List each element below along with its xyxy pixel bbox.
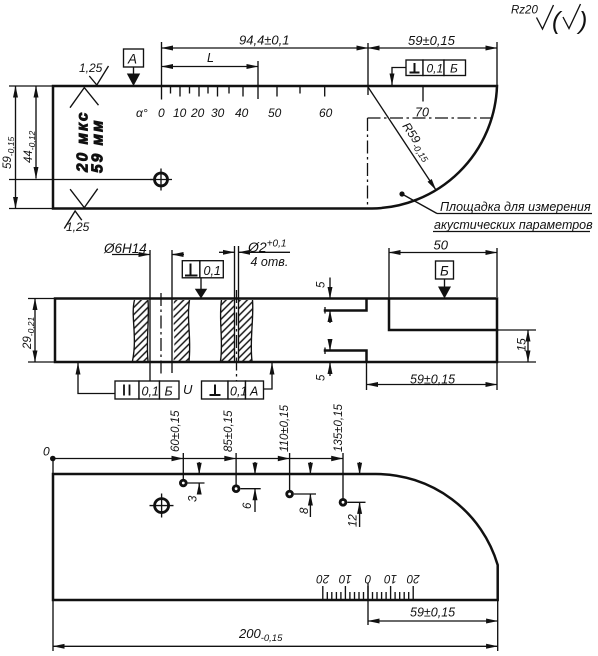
- svg-text:85±0,15: 85±0,15: [223, 410, 235, 452]
- svg-text:15: 15: [515, 338, 529, 352]
- svg-text:59±0,15: 59±0,15: [408, 33, 456, 48]
- svg-text:L: L: [207, 51, 214, 65]
- ruler scale (mirrored): [323, 586, 413, 600]
- svg-text:1,25: 1,25: [66, 220, 90, 234]
- svg-text:6: 6: [242, 502, 254, 509]
- hole axis line: [9, 179, 153, 181]
- svg-text:Б: Б: [165, 385, 173, 399]
- svg-text:10: 10: [338, 572, 351, 584]
- hole Ø6 view1 crosshair: [155, 173, 168, 186]
- svg-text:59±0,15: 59±0,15: [410, 373, 455, 387]
- dimension 15: [497, 329, 536, 331]
- notch bottom 5: [324, 348, 326, 355]
- arrowheads on reference line: [172, 456, 184, 462]
- dimension 59±0,15 (bottom): [367, 583, 369, 625]
- local section hatching around Ø6 hole: [133, 300, 149, 361]
- svg-text:0: 0: [364, 572, 371, 584]
- center lines view1: [368, 117, 492, 119]
- svg-text:0,1: 0,1: [204, 264, 221, 278]
- dimension 29-0,21: [28, 298, 55, 300]
- svg-text:0: 0: [158, 106, 165, 120]
- dimension L: [257, 61, 259, 99]
- svg-text:α°: α°: [136, 106, 148, 120]
- hole Ø6 walls: [149, 250, 151, 381]
- svg-text:0,1: 0,1: [142, 385, 159, 399]
- tolerance frame perpendicular 0,1 A (bottom): [202, 381, 264, 399]
- svg-text:U: U: [183, 382, 193, 397]
- svg-text:30: 30: [211, 106, 225, 120]
- svg-text:8: 8: [299, 507, 311, 514]
- ruler labels (upside down): [316, 572, 421, 584]
- note Площадка для измерения акустических параметров: [399, 191, 404, 196]
- svg-text:12: 12: [348, 514, 360, 527]
- local section hatching around Ø2 hole: [221, 300, 235, 361]
- svg-text:Б: Б: [450, 62, 458, 76]
- svg-text:20: 20: [190, 106, 205, 120]
- dimension 59±0,15 top right: [496, 42, 498, 85]
- dimension 94,4±0,1: [161, 42, 163, 100]
- svg-text:(: (: [552, 7, 563, 35]
- depth dim 3: [198, 462, 200, 474]
- svg-text:50: 50: [268, 106, 282, 120]
- recess 50x15: [389, 300, 497, 331]
- svg-text:60±0,15: 60±0,15: [170, 410, 182, 452]
- block outline view2: [55, 299, 497, 363]
- hole Ø2 walls: [234, 246, 236, 362]
- hole position labels: [170, 410, 182, 452]
- tolerance frame perpendicular 0,1 Б: [406, 60, 466, 76]
- svg-text:5: 5: [316, 281, 328, 288]
- svg-text:29-0,21: 29-0,21: [22, 317, 36, 350]
- block outline view3: [53, 474, 498, 600]
- leader left of frame: [78, 363, 115, 394]
- svg-text:200-0,15: 200-0,15: [238, 626, 283, 644]
- svg-text:Rz20: Rz20: [511, 5, 538, 17]
- roughness mark 1,25 bottom surface: [64, 189, 97, 229]
- svg-text:10: 10: [384, 572, 397, 584]
- svg-text:59-0,15: 59-0,15: [2, 137, 16, 169]
- depth dim 6: [254, 462, 256, 474]
- datum flag A: [124, 49, 144, 67]
- small holes: [179, 479, 347, 507]
- svg-text:А: А: [249, 385, 258, 399]
- svg-text:акустических параметров: акустических параметров: [434, 218, 593, 232]
- svg-text:10: 10: [173, 106, 187, 120]
- svg-text:R59-0,15: R59-0,15: [398, 120, 436, 165]
- dimension 44-0.12 (left, hole depth): [35, 86, 37, 179]
- svg-text:110±0,15: 110±0,15: [279, 404, 291, 452]
- svg-text:40: 40: [235, 106, 249, 120]
- tolerance frame parallel 0,1 Б (bottom): [115, 381, 179, 399]
- svg-text:50: 50: [434, 238, 449, 253]
- radius R59-0,15 leader: [368, 87, 436, 190]
- notch top 5: [324, 307, 326, 314]
- hole depth bars: [188, 482, 205, 484]
- angle scale ticks: [171, 86, 424, 102]
- svg-text:60: 60: [319, 106, 333, 120]
- angle scale labels: [136, 106, 429, 121]
- leader right of frame: [264, 363, 273, 389]
- hole Ø6 centerline: [160, 293, 162, 377]
- svg-text:94,4±0,1: 94,4±0,1: [239, 33, 290, 48]
- roughness mark 1,25 top surface: [70, 66, 109, 108]
- hole Ø2 centerline: [236, 290, 238, 381]
- svg-text:3: 3: [188, 495, 200, 502]
- svg-text:1,25: 1,25: [79, 61, 103, 75]
- dimension 5 (top notch): [329, 278, 331, 299]
- dimension 5 (bottom notch): [329, 339, 331, 351]
- svg-text:5: 5: [316, 374, 328, 381]
- svg-text:0,1: 0,1: [230, 385, 247, 399]
- text 20 мкс / 59 мм: [75, 111, 92, 174]
- datum flag Б (plan): [436, 261, 454, 279]
- svg-text:4 отв.: 4 отв.: [251, 255, 289, 269]
- svg-text:135±0,15: 135±0,15: [333, 404, 345, 452]
- depth dim 12: [359, 462, 361, 474]
- svg-text:Ø6Н14: Ø6Н14: [103, 241, 147, 256]
- svg-text:20: 20: [406, 572, 420, 584]
- svg-text:Б: Б: [440, 264, 449, 279]
- svg-text:59±0,15: 59±0,15: [410, 606, 455, 620]
- svg-text:0,1: 0,1: [427, 62, 444, 76]
- tolerance frame perpendicular 0,1 (top): [182, 261, 223, 278]
- svg-text:0: 0: [43, 445, 50, 459]
- dimension 59±0,15 (plan): [366, 362, 368, 390]
- svg-text:Площадка для измерения: Площадка для измерения: [440, 200, 591, 214]
- hole Ø6 view3 crosshair: [155, 499, 169, 513]
- svg-text:А: А: [127, 52, 137, 67]
- dimension 200-0,15: [52, 600, 54, 651]
- svg-text:59 мм: 59 мм: [90, 119, 107, 173]
- svg-text:44-0,12: 44-0,12: [23, 131, 37, 163]
- block outline view1: [53, 86, 497, 209]
- dimension 50: [388, 248, 390, 298]
- svg-text:20: 20: [316, 572, 330, 584]
- hole extension lines: [182, 453, 184, 483]
- dimension 59-0.15 (left, overall height): [9, 85, 53, 87]
- depth dim 8: [309, 462, 311, 474]
